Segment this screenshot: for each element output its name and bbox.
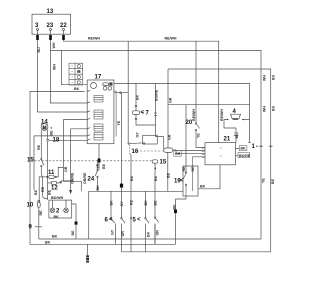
svg-text:˂: ˂: [180, 178, 184, 184]
svg-text:RE: RE: [182, 166, 186, 172]
svg-text:BK: BK: [110, 200, 114, 206]
svg-text:YE: YE: [197, 133, 201, 138]
svg-text:RE: RE: [37, 144, 41, 150]
svg-text:BU: BU: [272, 105, 276, 111]
svg-text:BU: BU: [272, 74, 276, 80]
svg-text:GR: GR: [168, 134, 172, 140]
svg-text:BE: BE: [191, 166, 195, 172]
svg-text:BE: BE: [48, 189, 52, 195]
svg-text:BK: BK: [96, 185, 100, 191]
svg-text:BK/RE: BK/RE: [239, 154, 251, 158]
svg-text:˂: ˂: [137, 217, 141, 223]
svg-text:RE/WH: RE/WH: [192, 109, 196, 121]
svg-text:RE/WH: RE/WH: [88, 37, 100, 41]
svg-text:OR: OR: [121, 231, 125, 237]
svg-text:˂: ˂: [141, 110, 145, 116]
svg-text:RE: RE: [130, 199, 134, 205]
svg-text:BE: BE: [50, 130, 54, 136]
svg-text:GY: GY: [120, 201, 124, 207]
svg-text:15: 15: [27, 158, 34, 164]
svg-text:5: 5: [133, 218, 137, 224]
svg-text:WH: WH: [263, 75, 267, 81]
svg-text:GY: GY: [111, 229, 115, 235]
svg-text:BE: BE: [235, 133, 239, 139]
svg-text:BE: BE: [271, 178, 275, 184]
svg-text:2: 2: [56, 209, 60, 215]
svg-text:BK: BK: [52, 235, 58, 239]
svg-text:BK: BK: [54, 215, 60, 219]
svg-text:BE: BE: [34, 189, 38, 195]
svg-text:10: 10: [27, 203, 34, 209]
svg-text:1: 1: [252, 144, 256, 150]
svg-text:WH: WH: [53, 64, 57, 70]
svg-text:OR: OR: [175, 152, 181, 156]
svg-text:3: 3: [35, 23, 39, 29]
svg-text:18: 18: [53, 138, 60, 144]
svg-text:23: 23: [47, 23, 54, 29]
svg-text:YE: YE: [96, 163, 100, 168]
svg-text:BK: BK: [154, 175, 158, 181]
svg-text:BK: BK: [241, 147, 247, 151]
svg-text:15: 15: [160, 160, 167, 166]
svg-text:BK: BK: [74, 87, 80, 91]
svg-text:BU: BU: [37, 47, 41, 53]
svg-text:YE: YE: [262, 178, 266, 183]
svg-text:9: 9: [29, 225, 33, 231]
svg-text:˂: ˂: [109, 217, 113, 223]
svg-text:RE/WH: RE/WH: [165, 37, 177, 41]
svg-text:WH: WH: [52, 42, 56, 48]
svg-text:16: 16: [132, 149, 139, 155]
svg-text:BE: BE: [173, 204, 177, 210]
svg-text:14: 14: [41, 120, 48, 126]
svg-text:21: 21: [224, 137, 231, 143]
svg-text:BK: BK: [147, 231, 151, 237]
svg-text:RE: RE: [41, 186, 45, 192]
svg-text:11: 11: [48, 170, 55, 176]
svg-text:24: 24: [88, 177, 95, 183]
svg-text:BK: BK: [136, 94, 140, 100]
svg-text:OR/RE: OR/RE: [83, 172, 87, 184]
svg-text:BK/WH: BK/WH: [51, 196, 64, 200]
svg-text:12: 12: [51, 186, 58, 192]
svg-text:GY: GY: [136, 132, 140, 138]
svg-text:BE: BE: [71, 230, 75, 236]
svg-text:OR/RE: OR/RE: [71, 172, 75, 184]
svg-text:+: +: [50, 127, 54, 129]
svg-text:BK: BK: [130, 175, 134, 181]
svg-text:OR: OR: [64, 166, 68, 172]
svg-text:RE/WH: RE/WH: [220, 109, 224, 121]
svg-text:WH: WH: [263, 106, 267, 112]
svg-text:BE: BE: [167, 172, 171, 178]
svg-text:BE: BE: [102, 163, 106, 169]
svg-text:RE: RE: [39, 210, 43, 216]
svg-text:BK: BK: [45, 241, 51, 245]
svg-text:13: 13: [47, 9, 54, 15]
svg-text:22: 22: [60, 23, 67, 29]
svg-text:BK: BK: [200, 185, 206, 189]
svg-text:17: 17: [95, 75, 102, 81]
svg-text:OR: OR: [156, 230, 160, 236]
svg-text:YE: YE: [117, 120, 121, 125]
svg-text:BE: BE: [154, 200, 158, 206]
svg-text:6: 6: [105, 218, 109, 224]
svg-text:7: 7: [146, 111, 150, 117]
svg-text:BK: BK: [144, 200, 148, 206]
svg-text:M: M: [43, 125, 47, 130]
svg-text:BU/RE: BU/RE: [154, 89, 158, 101]
svg-text:GR: GR: [169, 97, 173, 103]
